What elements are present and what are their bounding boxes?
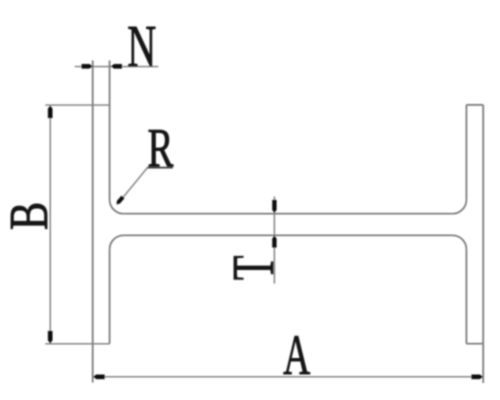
arrow A right	[471, 375, 483, 380]
left flange right line lower	[109, 249, 111, 343]
web top line	[124, 213, 453, 215]
left flange left line (with N extension above and A extension below)	[92, 61, 94, 383]
right flange left line upper	[465, 105, 467, 200]
arrow B bottom	[48, 331, 53, 344]
dimension line B	[49, 106, 51, 343]
dimension line T	[273, 197, 275, 284]
arrow T bottom	[272, 236, 276, 248]
svg-text:B: B	[0, 202, 59, 230]
right flange top cap	[466, 104, 483, 106]
B bottom extension line / left flange bottom cap	[45, 343, 109, 345]
arrow N right	[111, 64, 122, 69]
H-beam profile outline	[93, 61, 484, 384]
right flange bottom cap	[466, 343, 483, 345]
underline R	[147, 167, 173, 169]
arrowheads	[48, 64, 483, 379]
dimension line A	[93, 376, 484, 378]
arrow A left	[93, 375, 105, 380]
arrow T top	[272, 200, 276, 213]
svg-text:R: R	[148, 118, 174, 179]
fillet bottom-right	[452, 235, 466, 249]
svg-text:N: N	[127, 13, 156, 78]
arrow R leader	[117, 196, 125, 205]
svg-text:A: A	[283, 324, 310, 387]
web bottom line	[124, 234, 453, 236]
arrow N left	[82, 64, 93, 69]
fillet bottom-left	[110, 235, 124, 249]
right flange left line lower	[465, 249, 467, 343]
fillet top-left	[110, 200, 124, 214]
fillet top-right	[452, 200, 466, 214]
right flange right line (with A extension below)	[482, 105, 484, 383]
arrow B top	[48, 106, 53, 119]
dimension lines	[45, 67, 483, 377]
dimension line N	[75, 66, 159, 68]
B top extension line / left flange top cap	[45, 104, 109, 106]
left flange right line upper (with N extension above)	[109, 61, 111, 200]
svg-text:T: T	[220, 255, 285, 280]
leader line R	[118, 168, 148, 204]
